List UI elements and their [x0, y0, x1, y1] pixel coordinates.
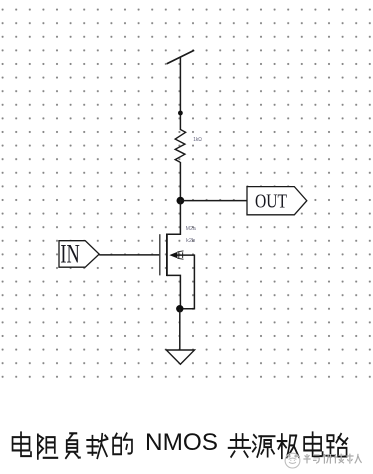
port flag OUT: [247, 187, 307, 215]
resistor R1: [175, 130, 185, 163]
port flag IN: [59, 239, 99, 268]
transistor Q1 source jog: [167, 275, 181, 309]
svg-text:M2a: M2a: [186, 226, 196, 232]
title char 电: [13, 432, 31, 456]
power rail VDD stub: [167, 50, 194, 64]
svg-text:OUT: OUT: [255, 191, 287, 213]
title char 的: [113, 433, 132, 454]
wire node to OUT flag: [180, 200, 247, 202]
resistor value label: [193, 137, 202, 143]
node source junction dot: [176, 305, 183, 312]
wire VDD to resistor: [179, 57, 181, 130]
transistor Q1 drain jog: [167, 199, 181, 234]
title char 极: [278, 434, 299, 458]
wire source node to ground: [179, 309, 181, 350]
svg-text:NMOS: NMOS: [145, 429, 218, 456]
title char 载: [87, 434, 107, 458]
ground symbol: [166, 350, 194, 364]
wire resistor to OUT node: [179, 162, 181, 200]
wire bulk to source node: [177, 255, 194, 309]
svg-text:1kΩ: 1kΩ: [193, 137, 202, 143]
title char 共: [229, 434, 251, 457]
title char 阻: [38, 435, 58, 459]
title char 负: [66, 433, 80, 458]
node OUT junction dot: [177, 197, 185, 205]
title text 电阻负载的 NMOS 共源极电路: [13, 432, 132, 458]
title char 电: [304, 432, 322, 456]
title char 路: [326, 434, 347, 457]
transistor label M1: [186, 226, 196, 232]
transistor Q1 channel bar: [166, 234, 168, 277]
svg-text:k2b: k2b: [186, 238, 195, 244]
watermark text 半导体技术人: [303, 454, 361, 464]
junction dot above resistor: [178, 111, 183, 116]
title char 源: [253, 435, 275, 457]
transistor model label: [186, 238, 195, 244]
transistor Q1 gate bar: [159, 234, 161, 275]
svg-text:IN: IN: [60, 239, 80, 268]
transistor Q1 bulk arrow: [169, 251, 183, 259]
watermark logo circle: [285, 453, 300, 468]
wire IN to gate: [99, 254, 160, 256]
